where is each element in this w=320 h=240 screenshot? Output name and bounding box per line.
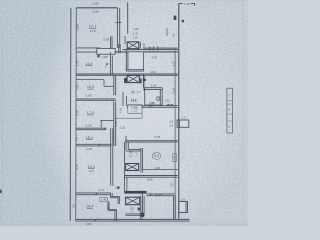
porch box bottom right [179,201,188,212]
svg-text:2,83: 2,83 [170,182,174,188]
tick wall A right end [98,51,100,53]
dim 1.40 boxed below wall F [100,197,108,201]
svg-text:1,8: 1,8 [181,197,185,201]
elevator shaft 3 [126,164,139,171]
dark speck left edge [0,190,2,193]
dim crosses right end wall G [166,104,173,106]
svg-text:3,10: 3,10 [119,108,123,114]
wire right-bottom room top wall [147,193,175,195]
left paper crease [1,30,3,226]
svg-text:1,1: 1,1 [130,210,134,214]
svg-text:1,5: 1,5 [182,115,186,119]
wire wall C (double) [76,98,116,100]
wire shaft wall top x127.6 [127,2,129,33]
svg-text:17,3: 17,3 [87,111,94,115]
wire shaft approach wall stub [124,36,126,44]
svg-text:4,95: 4,95 [75,24,79,30]
wire wall V1 room6 right wall (double) [110,128,112,186]
bathroom top wall (double) [145,87,163,89]
svg-text:3,05: 3,05 [75,84,79,90]
elevator shaft 4 [126,197,140,205]
wire big room top-left wall y118.3 [116,117,142,119]
wire wall H (double) [124,175,177,177]
svg-text:2,6: 2,6 [72,204,76,208]
door swing mark room2 [106,64,110,68]
svg-text:5,75: 5,75 [75,110,79,116]
thick dark band wall segment [124,191,146,194]
wire door wall room7 [107,202,109,210]
wc tick marks above [131,99,133,102]
svg-text:15,4: 15,4 [86,136,93,140]
wire lines below shaft 4 [125,213,142,215]
elevator hall light fill [129,52,144,70]
svg-text:ЛК: ЛК [131,90,135,94]
svg-text:1,98: 1,98 [150,101,156,105]
paper background [0,0,248,226]
wire elevator hall box [125,49,127,71]
bathroom right wall (double) [159,89,161,105]
dark pier left of shaft2 [124,78,127,83]
small pier right of wall y20 [182,20,184,23]
title block (rotated legend strip) [227,88,233,133]
svg-text:3.80: 3.80 [92,2,98,6]
wire wall G mid (double) [142,105,178,107]
wire wall D (double) [76,127,106,129]
svg-text:2,00: 2,00 [151,84,157,88]
svg-text:1,70: 1,70 [99,188,105,192]
svg-text:3,00: 3,00 [85,93,91,97]
closet rectangle over wall A [97,48,115,54]
wire right of shaft1 [139,42,141,49]
svg-text:11,5: 11,5 [85,62,92,66]
svg-text:2,6: 2,6 [75,137,79,141]
svg-text:2,99: 2,99 [86,222,92,226]
elevator shaft 1 [127,42,139,49]
svg-text:3,00: 3,00 [86,124,92,128]
toilet mark [157,97,159,100]
wire top wall of room 1 [76,7,117,9]
svg-text:5,58: 5,58 [147,178,153,182]
bottom edge shadow [0,0,1,1]
wire bottom wall (double) [76,218,190,220]
wire wall A room1/room2 (double) [76,47,100,49]
svg-text:12,2: 12,2 [87,85,94,89]
bathroom left wall [144,88,146,106]
svg-text:16,8: 16,8 [90,29,96,33]
dim 1.40 top right [183,2,191,5]
dim ticks on corridor wall [149,46,151,51]
room 5.2 walls [140,148,142,173]
wire wall E (double) [76,143,111,145]
bay window right [177,120,189,127]
svg-text:10,4: 10,4 [86,205,93,209]
dark blob left of closet [97,55,99,57]
wire corridor top wall lines [143,47,178,49]
svg-text:1,96: 1,96 [133,36,139,40]
vestibule walls below big room [125,136,127,151]
wire corridor left wall above H [123,142,125,191]
wire corridor below core [122,92,124,106]
svg-text:1,40: 1,40 [133,31,139,35]
svg-text:1,40: 1,40 [101,198,107,202]
dark pier right wall top [174,16,177,20]
wire wall y169.4 [143,169,178,171]
svg-text:2,2: 2,2 [137,90,141,94]
small dim mark mid-right upper [166,28,168,36]
wire secondary line y79.6 [76,79,104,81]
svg-text:17,1: 17,1 [89,23,98,28]
wire right-bottom left wall (double) with pier [139,196,141,220]
svg-text:15,9: 15,9 [88,169,94,173]
wire corridor left wall V2 (double, door gap) [113,75,115,95]
small boxed dim on right wall y157 [172,154,176,162]
door tick room1 right wall [115,22,121,24]
svg-text:3,10: 3,10 [171,88,175,94]
dark tick right of shaft2 [140,78,142,83]
wire right-bottom right wall [173,196,175,220]
wire right wall outer [178,3,180,218]
svg-text:1,88: 1,88 [102,55,108,59]
svg-text:1,96: 1,96 [133,27,139,31]
paper right-edge shadow line [243,0,245,226]
svg-text:4,67: 4,67 [151,55,157,59]
wire corridor bend near x119 [118,44,120,53]
elevator shaft 2 [127,75,139,82]
svg-text:5,75: 5,75 [75,164,79,170]
svg-text:1,40: 1,40 [184,2,190,6]
svg-text:6,95: 6,95 [86,147,92,151]
dark pier on entry wall [143,79,146,81]
svg-text:1,01: 1,01 [164,99,170,103]
svg-text:2,0: 2,0 [169,123,173,127]
svg-text:0,88: 0,88 [104,37,110,41]
svg-text:0,8: 0,8 [169,119,173,123]
wire room2 right wall (double) [110,52,112,75]
wire entry wall left of bathroom [142,74,144,88]
wire room4 corner niche [100,120,114,122]
svg-text:2.80: 2.80 [92,9,98,13]
svg-text:2,0: 2,0 [129,154,133,158]
wire bottom wall big room (double) [125,140,178,142]
svg-text:88: 88 [171,33,175,36]
wire right wall inner [174,48,176,219]
wire top-right stub [179,2,195,4]
wire wall F (double) with jog [76,192,111,194]
wire wall x143.9 [143,75,145,91]
svg-text:2,00: 2,00 [150,70,156,74]
wire room1 right wall (double) [116,8,118,48]
svg-text:1,4: 1,4 [134,152,138,156]
svg-text:3,35: 3,35 [75,60,79,66]
wire closet niche walls room1 [110,36,112,48]
wire left outer wall (double) [69,8,72,221]
svg-text:5,2: 5,2 [154,154,159,158]
wc box with text rows [128,104,142,106]
svg-text:5,54: 5,54 [154,135,160,139]
bathroom bottom [145,104,163,106]
wire wall B long horizontal (double) y74/75.3 [76,73,178,75]
top edge shadow [0,0,248,1]
